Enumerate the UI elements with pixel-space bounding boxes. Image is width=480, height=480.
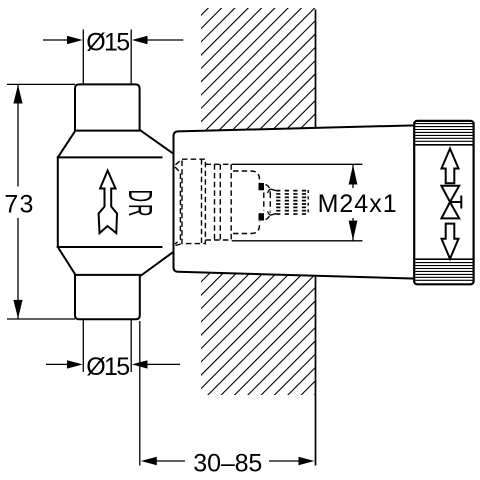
flow direction arrow inside valve body [99, 171, 117, 234]
dimension 30-85: dimension line left segment [157, 460, 186, 462]
dimension Ø15 top: dimension line right tail [147, 39, 183, 41]
body top edge [57, 156, 163, 158]
bottom outlet fitting [75, 275, 140, 319]
dimension 73: extension line bottom [7, 318, 75, 320]
dimension Ø15 bottom: dimension line right tail [147, 363, 180, 365]
svg-text:DR: DR [122, 190, 160, 219]
dimension Ø15 bottom: right arrow [132, 360, 148, 368]
flange symbol: valve bowtie upper triangle [441, 186, 459, 202]
mounting flange [414, 121, 473, 284]
svg-text:73: 73 [4, 191, 33, 219]
flange symbol: up arrow [442, 149, 459, 184]
body bottom edge [57, 246, 163, 248]
dimension Ø15 top: dimension line left tail [43, 39, 68, 41]
dimension Ø15 top: left arrow [67, 36, 83, 44]
hidden cartridge: bore diagonals (dashed) [175, 159, 270, 245]
top pipe stub / extension lines [82, 30, 84, 85]
spindle break squiggle top [268, 189, 277, 193]
spindle break squiggle bottom [268, 211, 277, 215]
hidden cartridge: upper ear profile [233, 171, 260, 183]
M24x1 dimension line with arrows [352, 164, 354, 241]
svg-text:Ø15: Ø15 [86, 28, 130, 56]
bottom pipe stub / extension lines [82, 320, 84, 373]
valve body mid-section outline [57, 130, 174, 276]
wall surface line upper [315, 10, 317, 128]
wall surface line lower (extension line for 30-85) [315, 276, 317, 465]
wall hatching lower block [83, 260, 450, 400]
flange top knurl band [415, 124, 473, 142]
hidden cartridge: o-ring seals (solid black) [259, 183, 265, 190]
M24x1 arrow down [349, 221, 358, 241]
dimension 73: arrow down [13, 300, 22, 319]
svg-text:30–85: 30–85 [193, 449, 262, 477]
threaded spindle right end dashes [307, 190, 309, 215]
flange symbol: down arrow [442, 224, 459, 259]
flange bottom knurl band [415, 258, 473, 260]
bottom-left shoulder slant [58, 247, 76, 275]
top-right shoulder slant [140, 130, 174, 154]
threaded spindle (dashed thread block) [276, 191, 308, 214]
flange symbol: valve stem [450, 201, 461, 203]
concealed valve cone body [174, 125, 441, 280]
dimension 73: arrow up [13, 85, 22, 104]
top-left shoulder slant [58, 130, 76, 157]
hidden cartridge: neck lines between seals [263, 193, 265, 211]
hidden cartridge: large dashed housing rectangle [182, 159, 205, 243]
top inlet fitting [75, 84, 140, 130]
M24x1 extension line bottom [232, 240, 363, 242]
hidden cartridge: body left edge [230, 164, 232, 241]
flange symbol: valve bowtie lower triangle [441, 202, 459, 218]
dimension 30-85: left arrow [141, 457, 157, 465]
M24x1 arrow up [349, 165, 358, 185]
dimension Ø15 bottom: left arrow [67, 360, 83, 368]
wall hatching upper block [63, 0, 456, 140]
dimension Ø15 top: right arrow [132, 36, 148, 44]
dimension 73: dimension line [17, 84, 19, 186]
dimension Ø15 bottom: dimension line left tail [46, 363, 68, 365]
dimension 73: extension line top [7, 83, 75, 85]
dimension 30-85: dimension line right segment [269, 460, 299, 462]
svg-text:M24x1: M24x1 [318, 190, 397, 218]
M24x1 extension line top [232, 163, 363, 165]
bottom-right shoulder slant [140, 252, 174, 276]
svg-text:Ø15: Ø15 [86, 353, 130, 381]
hidden cartridge: lower ear profile [233, 222, 260, 234]
dimension 30-85: right arrow [299, 457, 315, 465]
body left edge [57, 156, 59, 248]
hidden cartridge: stepped section dashed lines [214, 164, 216, 240]
extension line for 30-85 at fitting plane [139, 321, 141, 466]
